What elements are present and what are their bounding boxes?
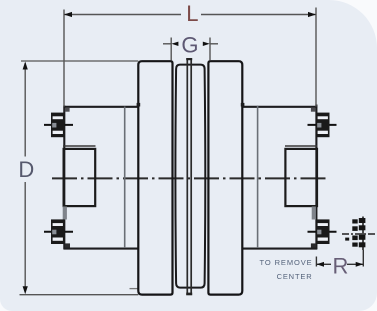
bolt left bottom: [44, 219, 73, 244]
bore left with keyway: [63, 146, 96, 206]
hub right barrel: [242, 105, 317, 250]
svg-text:R: R: [332, 253, 348, 278]
dimension G line: [163, 43, 171, 45]
svg-text:D: D: [18, 157, 34, 182]
center split end tips: [186, 293, 192, 296]
bolt right bottom: [308, 219, 337, 244]
bolt right top: [308, 113, 337, 138]
keyway bottom stub left: [63, 207, 67, 220]
dimension L extension lines: [63, 10, 65, 107]
bolt left top: [44, 113, 73, 138]
dimension G extension ticks: [170, 38, 172, 61]
keyway bottom stub right: [312, 207, 316, 220]
centerline main axis: [52, 177, 328, 179]
svg-text:CENTER: CENTER: [277, 272, 313, 281]
flange sleeve right: [208, 61, 242, 294]
hub left barrel: [64, 106, 139, 250]
svg-text:TO REMOVE: TO REMOVE: [260, 258, 313, 267]
dimension L line: [64, 14, 181, 16]
flange sleeve left: [138, 61, 172, 294]
center split lines: [187, 58, 191, 295]
svg-text:G: G: [181, 33, 198, 58]
disc pack barrel center element: [175, 65, 205, 288]
hub right inner joint line: [257, 106, 259, 249]
disc pack bolt detail: [342, 217, 377, 251]
dimension R line: [316, 263, 331, 265]
dimension D extension lines: [21, 60, 138, 62]
dimension R extension ticks: [315, 257, 317, 267]
sleeve inner lip line: [130, 288, 138, 290]
hub left inner joint line: [124, 107, 126, 249]
dimension D line: [24, 63, 26, 157]
bolt inner nuts: [65, 108, 70, 112]
hub-flange junction nubs: [137, 103, 141, 107]
svg-text:L: L: [186, 1, 198, 26]
bore right with keyway: [285, 146, 318, 206]
